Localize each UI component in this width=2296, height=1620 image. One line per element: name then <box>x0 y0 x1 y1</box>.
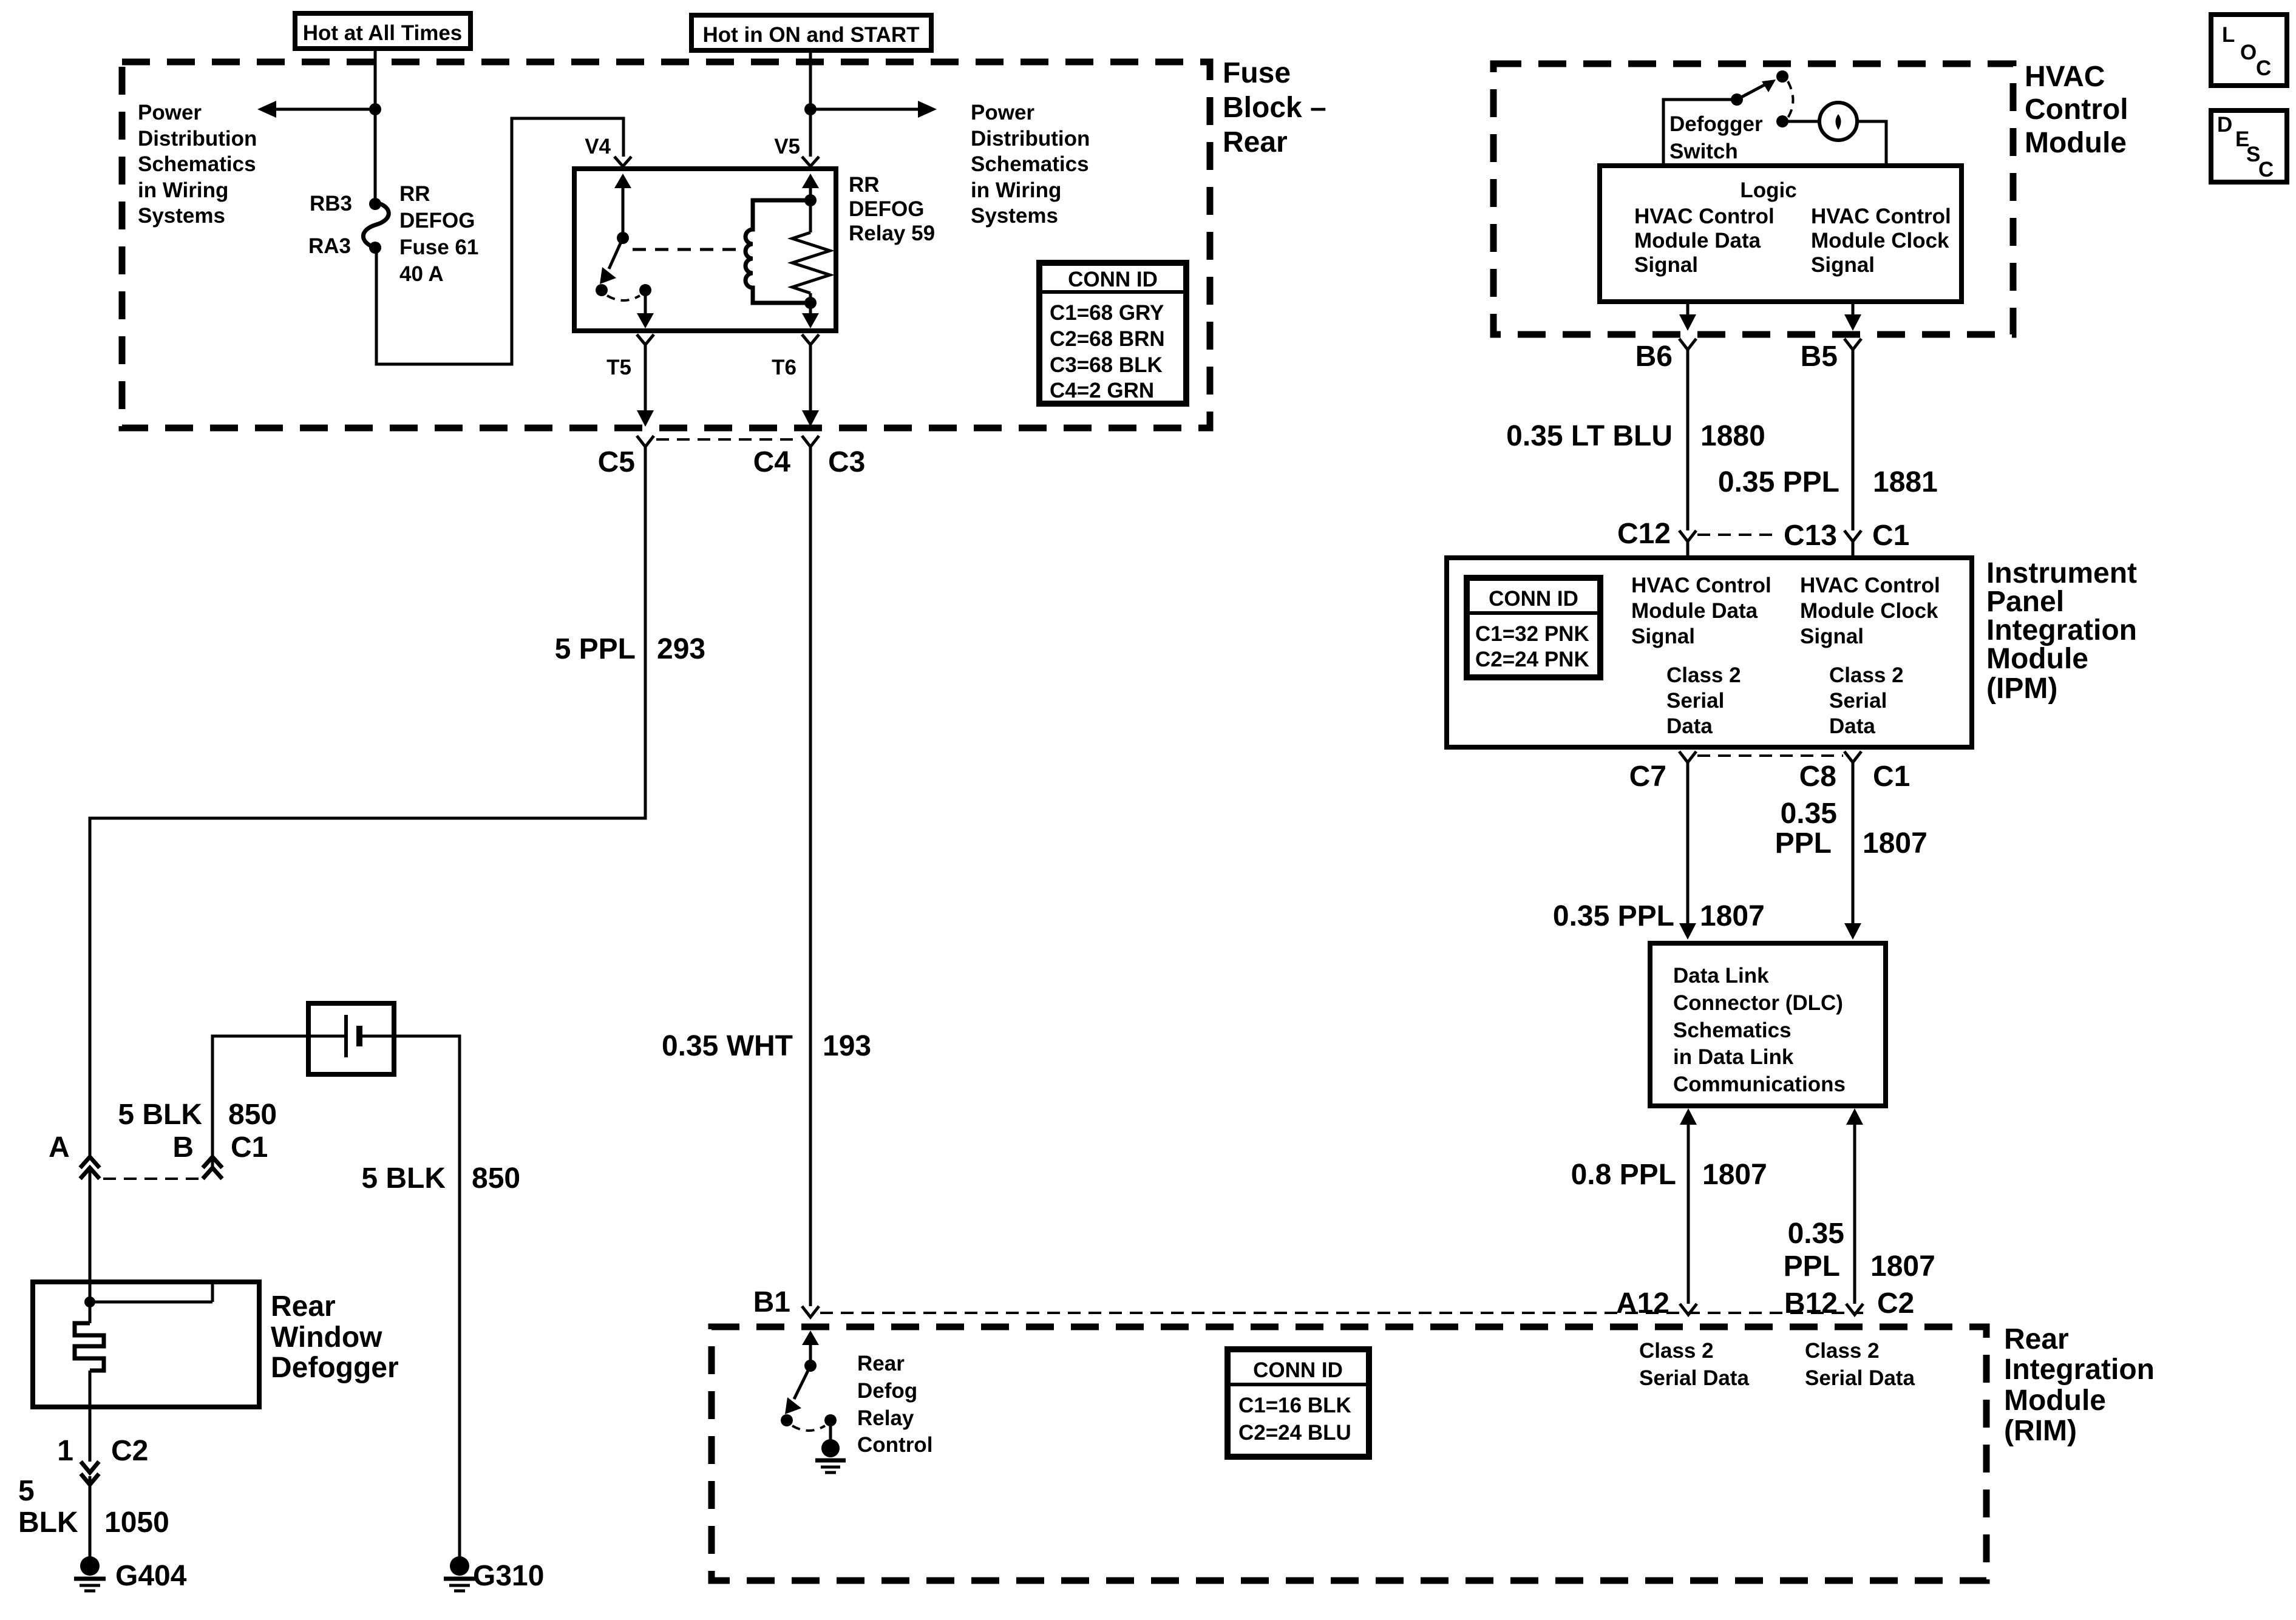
svg-text:C3=68 BLK: C3=68 BLK <box>1050 353 1163 377</box>
relay resistor <box>792 174 830 328</box>
svg-text:0.35 WHT: 0.35 WHT <box>662 1030 793 1062</box>
svg-text:Power: Power <box>138 101 202 124</box>
fuse block dashed border <box>122 62 1210 428</box>
wire: defogger to ground G404 (5 BLK 1050) <box>89 1476 92 1557</box>
module label: Rear Window Defogger <box>271 1290 399 1384</box>
svg-text:Switch: Switch <box>1669 140 1738 163</box>
pin T6 <box>772 334 819 427</box>
svg-text:Relay 59: Relay 59 <box>849 222 935 245</box>
svg-text:C1=16 BLK: C1=16 BLK <box>1238 1394 1351 1417</box>
relay RR DEFOG Relay 59 box <box>574 169 836 331</box>
IPM pin text right <box>1800 574 1940 738</box>
wire: fuse RA3 to relay pin V4 <box>376 118 623 364</box>
svg-text:Logic: Logic <box>1740 178 1796 202</box>
svg-text:Module: Module <box>2004 1384 2106 1417</box>
svg-text:Systems: Systems <box>971 204 1058 228</box>
svg-text:HVAC: HVAC <box>2025 61 2105 93</box>
svg-text:Relay: Relay <box>857 1406 914 1430</box>
connector 1 C2 <box>57 1407 148 1485</box>
wire: hot at all times feed <box>374 49 377 204</box>
svg-text:5 BLK: 5 BLK <box>118 1099 202 1131</box>
wire label: 0.35 LT BLU 1880 <box>1506 420 1765 452</box>
svg-text:Integration: Integration <box>1986 614 2137 646</box>
svg-text:DEFOG: DEFOG <box>399 209 475 232</box>
pin V5 <box>774 135 819 166</box>
svg-text:V5: V5 <box>774 135 800 158</box>
fuse 61 terminal labels RB3 / RA3 <box>308 192 352 258</box>
rear defog relay control switch <box>781 1330 837 1440</box>
wire: C8 to DLC (0.35 PPL 1807) <box>1844 762 1861 940</box>
svg-text:in Wiring: in Wiring <box>971 178 1061 202</box>
svg-text:Panel: Panel <box>1986 586 2064 618</box>
svg-text:C7: C7 <box>1629 761 1666 793</box>
svg-text:Power: Power <box>971 101 1034 124</box>
wire: B5 to C13 (0.35 PPL 1881) <box>1852 350 1855 530</box>
svg-text:C1=32 PNK: C1=32 PNK <box>1475 622 1589 646</box>
DESC reference box <box>2211 110 2287 182</box>
wire label: 5 BLK 850 (ground leg) <box>361 1162 520 1195</box>
svg-text:Data: Data <box>1666 714 1713 738</box>
svg-text:RB3: RB3 <box>310 192 352 215</box>
svg-text:Systems: Systems <box>138 204 225 228</box>
svg-text:CONN ID: CONN ID <box>1253 1358 1343 1382</box>
module label: HVAC Control Module <box>2025 61 2128 159</box>
CONN ID table (fuse block) <box>1039 263 1186 404</box>
wire label: 5 BLK 850 (defogger feed) <box>118 1099 277 1131</box>
svg-text:Class 2: Class 2 <box>1639 1339 1714 1363</box>
wire: battery to ground G310 (5 BLK 850) <box>394 1036 460 1557</box>
dashed connector line C5-C4 <box>656 438 798 441</box>
svg-text:CONN ID: CONN ID <box>1068 268 1158 291</box>
wire: arrow to power distribution schematics (right) <box>810 101 937 118</box>
dashed connector line C12-C13 <box>1697 534 1773 536</box>
svg-text:G310: G310 <box>473 1560 544 1592</box>
HVAC control module dashed box <box>1493 64 2013 334</box>
label box: Hot in ON and START <box>691 15 931 50</box>
pin V4 <box>585 135 631 166</box>
svg-text:Signal: Signal <box>1811 253 1875 277</box>
note: Power Distribution Schematics in Wiring Systems (right) <box>971 101 1090 228</box>
svg-text:Serial Data: Serial Data <box>1639 1366 1749 1390</box>
wire: A12 up to DLC (0.8 PPL 1807) <box>1680 1108 1697 1304</box>
label box: Hot at All Times <box>295 13 470 49</box>
svg-text:Instrument: Instrument <box>1986 557 2137 589</box>
svg-text:0.35 LT BLU: 0.35 LT BLU <box>1506 420 1673 452</box>
svg-text:Control: Control <box>857 1433 932 1457</box>
wire label: 5 BLK 1050 <box>18 1475 169 1539</box>
CONN ID table (RIM) <box>1228 1349 1369 1457</box>
wire label: 0.35 PPL 1807 (B12 leg) <box>1784 1218 1935 1283</box>
svg-text:1050: 1050 <box>104 1506 169 1539</box>
svg-text:Module Clock: Module Clock <box>1800 599 1938 623</box>
svg-text:HVAC Control: HVAC Control <box>1811 205 1951 228</box>
svg-text:HVAC Control: HVAC Control <box>1634 205 1775 228</box>
dashed connector line A-B <box>103 1178 200 1180</box>
indicator lamp <box>1782 103 1886 166</box>
wire label: 5 PPL 293 <box>555 633 705 665</box>
wire label: 0.35 WHT 193 <box>662 1030 871 1062</box>
svg-text:in Data Link: in Data Link <box>1673 1045 1794 1069</box>
svg-text:Class 2: Class 2 <box>1666 663 1741 687</box>
svg-text:(IPM): (IPM) <box>1986 673 2057 705</box>
dashed connector line B1-A12-B12 <box>820 1312 1863 1314</box>
svg-text:Module: Module <box>2025 127 2127 159</box>
svg-text:Rear: Rear <box>271 1290 336 1323</box>
svg-text:HVAC Control: HVAC Control <box>1800 574 1940 597</box>
wire: B12 up to DLC (0.35 PPL 1807) <box>1846 1108 1863 1304</box>
node: junction at power distribution tap <box>369 103 381 115</box>
connector C5 <box>598 436 654 478</box>
svg-text:CONN ID: CONN ID <box>1489 587 1578 611</box>
svg-text:C5: C5 <box>598 446 635 478</box>
svg-text:Module Clock: Module Clock <box>1811 229 1949 252</box>
data link connector DLC box <box>1650 943 1886 1106</box>
svg-text:C2=24 PNK: C2=24 PNK <box>1475 648 1589 671</box>
svg-text:Module Data: Module Data <box>1634 229 1761 252</box>
net label: Class 2 Serial Data (A12) <box>1639 1339 1749 1390</box>
svg-text:0.35: 0.35 <box>1781 798 1837 830</box>
svg-text:B6: B6 <box>1635 341 1673 373</box>
svg-text:T6: T6 <box>772 356 796 379</box>
svg-text:Data Link: Data Link <box>1673 964 1769 988</box>
module label: Instrument Panel Integration Module (IPM) <box>1986 557 2137 705</box>
svg-text:C2: C2 <box>111 1435 148 1467</box>
svg-text:Schematics: Schematics <box>138 152 256 176</box>
svg-text:C2=68 BRN: C2=68 BRN <box>1050 327 1165 351</box>
svg-text:C: C <box>2258 158 2274 181</box>
svg-text:1881: 1881 <box>1873 466 1938 498</box>
wire: connector B up to battery sense <box>212 1036 308 1169</box>
svg-text:BLK: BLK <box>18 1506 78 1539</box>
svg-text:B: B <box>172 1131 194 1164</box>
svg-text:PPL: PPL <box>1775 827 1832 859</box>
svg-text:1880: 1880 <box>1700 420 1765 452</box>
svg-text:0.35 PPL: 0.35 PPL <box>1553 900 1674 932</box>
svg-text:Signal: Signal <box>1800 625 1864 648</box>
ground G404 <box>74 1556 187 1592</box>
svg-text:Serial: Serial <box>1829 689 1887 713</box>
svg-text:C13: C13 <box>1784 520 1837 552</box>
connector B12 C2 <box>1784 1287 1914 1320</box>
svg-text:B1: B1 <box>753 1286 790 1318</box>
svg-text:Integration: Integration <box>2004 1354 2155 1386</box>
svg-text:1807: 1807 <box>1702 1159 1767 1191</box>
net label: Class 2 Serial Data (B12) <box>1805 1339 1915 1390</box>
wire: hot in ON and START feed <box>809 50 812 157</box>
LOC reference box <box>2211 15 2287 86</box>
wire label: 0.35 PPL 1807 (C8 leg) <box>1775 798 1927 859</box>
svg-text:Distribution: Distribution <box>971 127 1090 151</box>
svg-text:Communications: Communications <box>1673 1073 1846 1096</box>
svg-text:Module: Module <box>1986 643 2088 675</box>
relay label: RR DEFOG Relay 59 <box>849 173 935 245</box>
svg-text:HVAC Control: HVAC Control <box>1631 574 1771 597</box>
svg-text:5: 5 <box>18 1475 35 1507</box>
svg-text:A: A <box>49 1131 70 1164</box>
pin B5 <box>1801 302 1861 373</box>
svg-text:Schematics: Schematics <box>1673 1018 1792 1042</box>
relay coil <box>746 194 817 309</box>
connector C13 C1 <box>1784 520 1909 558</box>
relay switch arm <box>596 174 654 328</box>
svg-text:1807: 1807 <box>1700 900 1765 932</box>
switch label: Rear Defog Relay Control <box>857 1352 932 1457</box>
svg-text:PPL: PPL <box>1784 1250 1840 1283</box>
in-line connector B C1 (pass-through) <box>172 1131 268 1179</box>
ground: rear defog relay control <box>815 1439 846 1473</box>
svg-text:C1=68 GRY: C1=68 GRY <box>1050 301 1164 325</box>
svg-text:O: O <box>2240 41 2257 64</box>
svg-text:Signal: Signal <box>1631 625 1695 648</box>
connector A12 <box>1616 1287 1697 1320</box>
svg-text:Fuse 61: Fuse 61 <box>399 236 478 259</box>
svg-text:0.8 PPL: 0.8 PPL <box>1571 1159 1676 1191</box>
svg-text:Hot in ON and START: Hot in ON and START <box>702 23 919 47</box>
svg-text:0.35: 0.35 <box>1788 1218 1844 1250</box>
pin B6 <box>1635 302 1696 373</box>
svg-text:DEFOG: DEFOG <box>849 197 924 221</box>
wire: C7 to DLC (0.35 PPL 1807) <box>1679 762 1696 940</box>
defogger grid element <box>75 1302 104 1407</box>
svg-text:5 BLK: 5 BLK <box>361 1162 446 1195</box>
svg-text:A12: A12 <box>1616 1287 1669 1320</box>
connector C7 <box>1629 751 1696 793</box>
relay linkage (dashed) <box>633 248 746 251</box>
svg-text:T5: T5 <box>606 356 631 379</box>
svg-text:B12: B12 <box>1784 1287 1838 1320</box>
svg-text:Module Data: Module Data <box>1631 599 1758 623</box>
module label: Fuse Block - Rear <box>1223 57 1326 158</box>
module label: Rear Integration Module (RIM) <box>2004 1323 2155 1447</box>
dashed connector line C7-C8 <box>1697 754 1843 757</box>
node: junction at power distribution tap (right) <box>804 103 817 115</box>
svg-text:C3: C3 <box>828 446 865 478</box>
svg-text:Serial: Serial <box>1666 689 1724 713</box>
svg-text:Class 2: Class 2 <box>1829 663 1904 687</box>
svg-text:RA3: RA3 <box>308 234 351 258</box>
svg-text:C1: C1 <box>1873 761 1910 793</box>
ground G310 <box>444 1556 544 1592</box>
svg-text:D: D <box>2217 113 2232 137</box>
wire: A into defogger <box>89 1168 92 1302</box>
svg-text:0.35 PPL: 0.35 PPL <box>1718 466 1839 498</box>
svg-text:B5: B5 <box>1801 341 1838 373</box>
wire: C3 down to B1 (0.35 WHT 193) <box>809 447 812 1306</box>
svg-text:Hot at All Times: Hot at All Times <box>303 21 463 45</box>
defogger switch label <box>1669 112 1763 163</box>
wire label: 0.8 PPL 1807 <box>1571 1159 1767 1191</box>
svg-text:Signal: Signal <box>1634 253 1698 277</box>
connector C12 <box>1617 518 1696 558</box>
svg-text:Window: Window <box>271 1321 382 1354</box>
svg-text:1807: 1807 <box>1863 827 1927 859</box>
svg-text:Class 2: Class 2 <box>1805 1339 1880 1363</box>
svg-text:Rear: Rear <box>2004 1323 2069 1355</box>
svg-text:C2: C2 <box>1877 1287 1914 1320</box>
svg-text:C1: C1 <box>1872 520 1909 552</box>
svg-text:850: 850 <box>228 1099 277 1131</box>
pin T5 <box>606 334 654 427</box>
svg-text:RR: RR <box>399 182 430 206</box>
wire label: 0.35 PPL 1807 (C7 leg) <box>1553 900 1765 932</box>
battery symbol box <box>308 1003 394 1074</box>
svg-text:C4=2 GRN: C4=2 GRN <box>1050 379 1154 402</box>
svg-text:Serial Data: Serial Data <box>1805 1366 1915 1390</box>
svg-text:Connector (DLC): Connector (DLC) <box>1673 991 1843 1015</box>
in-line connector A (pass-through) <box>49 1131 100 1179</box>
svg-text:in Wiring: in Wiring <box>138 178 228 202</box>
svg-text:V4: V4 <box>585 135 611 158</box>
wire: arrow to power distribution schematics (left) <box>257 101 375 118</box>
svg-text:Schematics: Schematics <box>971 152 1089 176</box>
wire label: 0.35 PPL 1881 <box>1718 466 1938 498</box>
IPM pin text left <box>1631 574 1771 738</box>
svg-text:L: L <box>2222 23 2235 47</box>
note: Power Distribution Schematics in Wiring Systems (left) <box>138 101 257 228</box>
connector C8 C1 <box>1799 751 1911 793</box>
svg-text:5 PPL: 5 PPL <box>555 633 636 665</box>
svg-text:C1: C1 <box>231 1131 268 1164</box>
svg-text:C2=24 BLU: C2=24 BLU <box>1238 1421 1351 1445</box>
svg-text:Defog: Defog <box>857 1379 917 1403</box>
rear window defogger box <box>33 1282 259 1407</box>
svg-text:Rear: Rear <box>857 1352 905 1375</box>
HVAC logic box <box>1600 166 1961 302</box>
rear integration module dashed box <box>712 1327 1986 1581</box>
svg-text:RR: RR <box>849 173 880 197</box>
fuse RR DEFOG Fuse 61 40 A <box>363 182 478 286</box>
svg-text:Rear: Rear <box>1223 126 1288 158</box>
svg-text:(RIM): (RIM) <box>2004 1415 2077 1447</box>
instrument panel integration module box <box>1447 558 1972 747</box>
connector B1 <box>753 1286 819 1318</box>
svg-text:C: C <box>2256 56 2271 80</box>
svg-text:Block –: Block – <box>1223 92 1326 124</box>
svg-text:C4: C4 <box>753 446 791 478</box>
wire: B6 to C12 (0.35 LT BLU 1880) <box>1686 350 1690 530</box>
connector C4 <box>753 436 819 478</box>
svg-text:Defogger: Defogger <box>271 1352 399 1384</box>
svg-text:C8: C8 <box>1799 761 1836 793</box>
svg-text:Defogger: Defogger <box>1669 112 1763 136</box>
svg-text:1: 1 <box>57 1435 73 1467</box>
svg-text:C12: C12 <box>1617 518 1671 550</box>
CONN ID table (IPM) <box>1467 578 1600 677</box>
svg-text:Fuse: Fuse <box>1223 57 1291 89</box>
svg-text:850: 850 <box>472 1162 520 1195</box>
svg-text:Control: Control <box>2025 93 2128 126</box>
svg-text:40 A: 40 A <box>399 262 444 286</box>
svg-text:Distribution: Distribution <box>138 127 257 151</box>
svg-text:293: 293 <box>657 633 705 665</box>
svg-text:G404: G404 <box>115 1560 187 1592</box>
wire: C5 to defogger connector A (5 PPL 293) <box>90 447 645 1155</box>
svg-text:193: 193 <box>823 1030 871 1062</box>
defogger switch symbol <box>1663 70 1793 166</box>
svg-text:1807: 1807 <box>1870 1250 1935 1283</box>
svg-text:Data: Data <box>1829 714 1875 738</box>
